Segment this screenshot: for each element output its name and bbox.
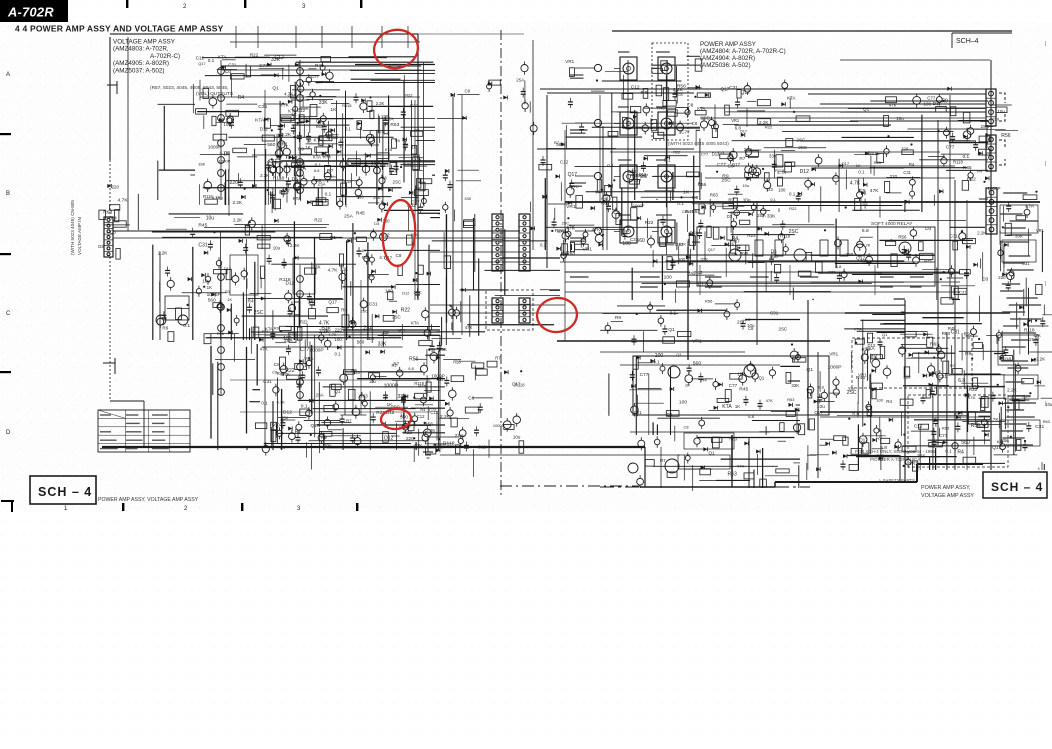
svg-text:△ SAFETY PARTS: △ SAFETY PARTS	[878, 478, 915, 483]
svg-text:C12: C12	[430, 410, 438, 415]
svg-text:C12: C12	[560, 160, 569, 165]
svg-text:2SC: 2SC	[414, 290, 422, 295]
svg-text:R22: R22	[967, 177, 976, 183]
svg-text:(R57, 5023, 4045, 4005, 5043,: (R57, 5023, 4045, 4005, 5043, 5045,	[150, 85, 228, 91]
svg-text:R118: R118	[443, 441, 455, 447]
svg-text:0.1: 0.1	[301, 403, 308, 409]
svg-text:KTA: KTA	[293, 196, 301, 201]
svg-text:Q1: Q1	[759, 375, 765, 380]
svg-text:D3: D3	[925, 226, 931, 232]
svg-text:220: 220	[998, 275, 1006, 280]
svg-text:2.2K: 2.2K	[1036, 357, 1045, 362]
svg-text:10u: 10u	[206, 216, 215, 222]
svg-text:33K: 33K	[319, 100, 329, 106]
svg-text:0.1: 0.1	[335, 351, 342, 356]
svg-text:6.8: 6.8	[314, 168, 320, 173]
svg-text:Q1: Q1	[668, 327, 675, 333]
svg-text:2.2K: 2.2K	[426, 428, 436, 433]
svg-text:D3: D3	[767, 187, 773, 193]
svg-text:R22: R22	[747, 233, 756, 238]
svg-text:VR1: VR1	[304, 356, 314, 362]
svg-text:POWER AMP ASSY: POWER AMP ASSY	[700, 41, 756, 48]
svg-text:VOLTAGE AMP ASSY: VOLTAGE AMP ASSY	[113, 39, 176, 46]
svg-text:R22: R22	[401, 307, 410, 313]
svg-text:D12: D12	[283, 410, 292, 416]
svg-text:(AMZ5036: A-502): (AMZ5036: A-502)	[700, 62, 751, 69]
svg-text:Q17: Q17	[859, 438, 868, 443]
svg-text:KTA: KTA	[737, 463, 745, 468]
svg-text:2.2K: 2.2K	[233, 200, 243, 205]
svg-text:1K: 1K	[856, 163, 861, 168]
svg-text:D3: D3	[374, 221, 380, 226]
svg-text:C31: C31	[268, 158, 277, 163]
svg-text:R4: R4	[957, 449, 964, 455]
svg-text:1K: 1K	[685, 382, 690, 387]
svg-text:Q1: Q1	[709, 451, 716, 456]
svg-text:KTA: KTA	[787, 96, 795, 101]
svg-text:C77: C77	[717, 162, 726, 168]
svg-text:D3: D3	[354, 370, 360, 375]
svg-text:C31: C31	[950, 234, 959, 239]
svg-text:C77: C77	[729, 383, 738, 388]
svg-text:560: 560	[208, 298, 216, 304]
svg-text:0.1: 0.1	[325, 192, 332, 197]
svg-text:R56: R56	[964, 331, 973, 336]
svg-text:D3: D3	[98, 244, 104, 249]
svg-text:560: 560	[693, 361, 702, 367]
svg-text:100: 100	[664, 275, 672, 281]
svg-text:C77: C77	[939, 433, 948, 439]
svg-text:47K: 47K	[557, 229, 566, 235]
svg-text:10u: 10u	[742, 183, 749, 188]
svg-text:1K: 1K	[411, 145, 416, 150]
svg-text:KTA: KTA	[722, 404, 732, 410]
svg-text:33K: 33K	[791, 383, 799, 388]
svg-text:0.1: 0.1	[677, 201, 684, 207]
svg-text:D12: D12	[800, 169, 809, 175]
svg-text:2.2K: 2.2K	[1007, 387, 1018, 393]
svg-text:10u: 10u	[513, 435, 521, 440]
svg-text:Q1: Q1	[272, 86, 279, 92]
svg-text:R9: R9	[414, 128, 420, 133]
svg-text:C8: C8	[860, 188, 866, 193]
svg-text:VR1: VR1	[731, 118, 740, 123]
svg-text:2SC: 2SC	[798, 145, 808, 150]
svg-text:KTA: KTA	[384, 117, 394, 123]
svg-text:47K: 47K	[414, 157, 422, 162]
svg-text:100: 100	[622, 241, 631, 247]
svg-text:100: 100	[778, 187, 786, 192]
svg-text:C31: C31	[198, 242, 207, 248]
svg-text:VR1: VR1	[1036, 228, 1045, 233]
svg-text:A: A	[6, 72, 10, 78]
svg-text:4 4 POWER AMP ASSY AND VOLTAGE: 4 4 POWER AMP ASSY AND VOLTAGE AMP ASSY	[15, 24, 224, 34]
svg-text:C31: C31	[959, 289, 967, 294]
svg-text:C31: C31	[951, 330, 960, 336]
svg-text:C12: C12	[196, 56, 205, 61]
svg-text:4.7K: 4.7K	[850, 181, 861, 187]
svg-text:R56: R56	[409, 356, 418, 362]
svg-text:C8: C8	[396, 253, 402, 258]
svg-text:SCH – 4: SCH – 4	[38, 485, 92, 499]
svg-text:|: |	[1045, 41, 1046, 47]
svg-text:R22: R22	[645, 220, 654, 226]
svg-text:C77: C77	[259, 63, 268, 69]
svg-text:100: 100	[385, 288, 393, 294]
svg-text:C31: C31	[369, 302, 378, 308]
svg-text:D3: D3	[718, 150, 725, 156]
svg-text:C31: C31	[263, 379, 272, 384]
svg-text:R9: R9	[274, 325, 279, 330]
svg-text:|: |	[1045, 161, 1046, 167]
svg-text:B: B	[6, 191, 10, 197]
svg-text:Q17: Q17	[568, 172, 578, 178]
svg-text:4.7K: 4.7K	[328, 268, 339, 274]
svg-text:220: 220	[992, 117, 999, 122]
svg-text:R63: R63	[695, 270, 704, 275]
svg-text:D3: D3	[727, 214, 733, 219]
svg-text:4.7K: 4.7K	[284, 91, 293, 96]
svg-text:R63: R63	[942, 331, 951, 336]
svg-text:1000P: 1000P	[208, 144, 221, 149]
svg-text:10u: 10u	[273, 245, 281, 250]
svg-text:R9: R9	[965, 351, 971, 357]
svg-text:1K: 1K	[227, 297, 232, 302]
svg-text:D12: D12	[224, 266, 231, 271]
svg-text:R4: R4	[701, 378, 707, 383]
svg-text:R4: R4	[238, 95, 245, 101]
svg-text:C77: C77	[946, 144, 955, 150]
svg-text:R7: R7	[392, 363, 398, 368]
svg-text:10u: 10u	[202, 278, 210, 283]
svg-text:R45: R45	[315, 63, 324, 69]
svg-text:D12: D12	[868, 343, 876, 348]
svg-text:A-702R-C): A-702R-C)	[150, 53, 180, 60]
svg-text:0.1: 0.1	[963, 154, 970, 160]
svg-text:47K: 47K	[870, 188, 879, 194]
svg-text:R118: R118	[414, 381, 424, 386]
svg-text:6.8: 6.8	[862, 228, 869, 234]
svg-text:0.1: 0.1	[858, 169, 865, 174]
svg-text:R7: R7	[554, 140, 559, 145]
svg-text:0.1: 0.1	[183, 323, 190, 329]
svg-text:0.1: 0.1	[664, 157, 671, 163]
svg-text:VR1: VR1	[829, 352, 838, 357]
svg-text:C12: C12	[478, 445, 487, 450]
svg-text:6.8: 6.8	[748, 414, 755, 419]
svg-text:47K: 47K	[679, 242, 686, 247]
svg-text:Q17: Q17	[814, 410, 823, 415]
svg-text:Q17: Q17	[512, 381, 521, 386]
svg-text:R56: R56	[1001, 133, 1010, 139]
svg-text:Q17: Q17	[328, 300, 337, 305]
svg-text:R56: R56	[453, 359, 461, 364]
svg-text:|: |	[1045, 281, 1046, 287]
svg-text:VR1: VR1	[565, 59, 574, 64]
svg-text:C8: C8	[684, 424, 690, 429]
svg-text:R63: R63	[942, 426, 950, 431]
svg-text:1K: 1K	[308, 299, 314, 304]
svg-text:R4: R4	[248, 298, 254, 304]
svg-text:4.7K: 4.7K	[328, 332, 336, 337]
svg-text:10u: 10u	[997, 109, 1005, 115]
svg-text:R22: R22	[828, 270, 835, 275]
svg-text:KTA: KTA	[697, 106, 705, 111]
svg-text:VR1: VR1	[909, 461, 918, 466]
svg-text:560: 560	[961, 440, 970, 446]
svg-text:C31: C31	[770, 310, 779, 315]
svg-text:Q17: Q17	[741, 90, 751, 96]
svg-text:10u: 10u	[747, 323, 755, 328]
svg-text:SCH–4: SCH–4	[956, 38, 979, 45]
svg-text:R4: R4	[111, 215, 117, 220]
svg-text:0.1: 0.1	[653, 359, 660, 364]
svg-text:C8: C8	[274, 362, 280, 368]
svg-text:R22: R22	[279, 190, 288, 196]
svg-text:47K: 47K	[592, 227, 601, 233]
svg-text:C77: C77	[300, 347, 309, 353]
svg-text:D12: D12	[260, 127, 269, 132]
svg-text:Q17: Q17	[740, 128, 747, 133]
svg-text:47K: 47K	[566, 226, 576, 232]
svg-text:6.8: 6.8	[836, 264, 842, 269]
svg-text:2.2K: 2.2K	[376, 101, 385, 106]
svg-text:(AMZ4905: A-802R): (AMZ4905: A-802R)	[113, 60, 169, 67]
svg-text:C77: C77	[311, 74, 320, 79]
svg-text:2SC: 2SC	[779, 327, 788, 332]
svg-text:2SA: 2SA	[344, 214, 354, 219]
svg-text:D3: D3	[982, 277, 988, 282]
svg-text:D3: D3	[110, 230, 116, 235]
svg-text:33K: 33K	[464, 196, 471, 201]
svg-text:Q1: Q1	[676, 352, 681, 357]
svg-text:220: 220	[406, 436, 414, 441]
svg-text:R7: R7	[574, 184, 579, 189]
svg-text:6.8: 6.8	[818, 385, 824, 390]
svg-text:R63: R63	[930, 342, 939, 348]
svg-text:2SC: 2SC	[393, 180, 402, 185]
svg-text:C8: C8	[465, 88, 471, 93]
svg-text:Q1: Q1	[806, 367, 813, 373]
svg-text:1K: 1K	[305, 145, 310, 150]
svg-text:4.7K: 4.7K	[319, 321, 330, 327]
svg-text:Q17: Q17	[842, 161, 850, 166]
svg-text:33K: 33K	[312, 264, 321, 269]
svg-text:C8: C8	[728, 164, 734, 170]
svg-text:R63: R63	[728, 471, 737, 477]
svg-text:R63: R63	[787, 397, 795, 402]
svg-text:C: C	[6, 311, 11, 317]
svg-text:Q17: Q17	[311, 423, 320, 428]
svg-text:C31: C31	[258, 104, 267, 110]
svg-text:R7: R7	[728, 197, 734, 202]
svg-text:R22: R22	[314, 218, 322, 223]
svg-text:R9: R9	[722, 174, 729, 180]
svg-text:R4: R4	[909, 162, 915, 167]
svg-text:220: 220	[901, 147, 909, 152]
svg-text:R63: R63	[710, 192, 719, 197]
svg-text:0.1: 0.1	[770, 197, 776, 202]
svg-text:560: 560	[770, 254, 778, 260]
svg-text:R63: R63	[1043, 419, 1050, 424]
svg-text:1000P: 1000P	[828, 365, 842, 371]
svg-text:2SA: 2SA	[516, 77, 524, 82]
svg-text:R45: R45	[356, 211, 365, 217]
svg-text:2.2K: 2.2K	[290, 243, 300, 248]
svg-text:R4: R4	[977, 169, 983, 174]
svg-text:100: 100	[679, 399, 687, 405]
svg-text:100: 100	[924, 101, 932, 106]
svg-text:R56: R56	[898, 235, 907, 240]
svg-text:R7: R7	[739, 156, 745, 161]
svg-text:R56: R56	[705, 298, 713, 303]
svg-text:6.8: 6.8	[408, 366, 414, 371]
svg-text:4.7K: 4.7K	[989, 417, 1000, 423]
svg-text:2.2K: 2.2K	[673, 87, 684, 93]
svg-text:R4: R4	[420, 407, 426, 412]
svg-text:R22: R22	[789, 206, 797, 211]
svg-text:KTA: KTA	[323, 155, 331, 160]
svg-text:2SC: 2SC	[796, 137, 806, 142]
svg-text:1K: 1K	[683, 189, 690, 195]
svg-text:KTA: KTA	[255, 117, 265, 123]
svg-text:2.2K: 2.2K	[440, 414, 449, 419]
svg-text:A-702R: A-702R	[7, 5, 54, 20]
svg-text:33K: 33K	[198, 161, 205, 166]
svg-text:10u: 10u	[1045, 402, 1052, 407]
svg-text:4.7K: 4.7K	[220, 150, 229, 155]
svg-text:0.1: 0.1	[261, 400, 268, 405]
svg-text:Q17: Q17	[198, 61, 206, 66]
svg-text:Q17: Q17	[708, 247, 716, 252]
svg-text:R4: R4	[886, 399, 892, 404]
svg-text:KTA: KTA	[411, 321, 419, 326]
svg-text:VR1: VR1	[692, 339, 702, 345]
svg-text:R45: R45	[924, 258, 932, 263]
svg-text:0.1: 0.1	[670, 310, 677, 315]
svg-text:100: 100	[876, 398, 884, 403]
svg-text:R118: R118	[775, 168, 784, 173]
svg-text:VOLTAGE AMP IN: VOLTAGE AMP IN	[77, 217, 82, 255]
svg-text:VR1: VR1	[566, 204, 576, 210]
svg-text:C77: C77	[316, 80, 323, 85]
svg-text:1K: 1K	[735, 404, 740, 409]
svg-text:2.2K: 2.2K	[260, 173, 269, 178]
svg-text:R63: R63	[390, 122, 399, 128]
svg-text:SCH – 4: SCH – 4	[991, 480, 1043, 494]
svg-text:VOLTAGE AMP ASSY: VOLTAGE AMP ASSY	[921, 493, 974, 499]
svg-text:(VOL) OUTPUTS: (VOL) OUTPUTS	[196, 91, 233, 97]
svg-text:1K: 1K	[871, 355, 878, 361]
svg-text:R118: R118	[203, 194, 213, 199]
svg-text:R63: R63	[359, 394, 368, 399]
svg-text:R22: R22	[250, 53, 259, 58]
svg-text:0.1: 0.1	[208, 58, 215, 64]
svg-text:0.1: 0.1	[945, 448, 952, 453]
svg-text:10u: 10u	[737, 371, 745, 376]
svg-text:1000P: 1000P	[988, 186, 1001, 191]
svg-text:10u: 10u	[743, 198, 751, 204]
svg-text:(AMZ5037: A-502): (AMZ5037: A-502)	[113, 67, 164, 74]
svg-text:D3: D3	[933, 101, 939, 107]
svg-text:R4: R4	[280, 445, 286, 450]
svg-text:6.8: 6.8	[732, 211, 739, 216]
svg-text:R9: R9	[615, 315, 621, 320]
svg-text:220: 220	[112, 184, 120, 189]
svg-text:2SC: 2SC	[981, 124, 991, 129]
svg-text:100: 100	[655, 353, 664, 359]
svg-text:33K: 33K	[1015, 233, 1023, 238]
svg-text:2.2K: 2.2K	[158, 251, 168, 256]
svg-text:2.2K: 2.2K	[862, 243, 871, 248]
svg-text:C12: C12	[631, 84, 640, 90]
svg-text:D12: D12	[402, 291, 409, 296]
svg-text:R22: R22	[300, 319, 308, 324]
svg-text:2SA: 2SA	[1029, 337, 1039, 343]
svg-text:R22: R22	[405, 93, 412, 98]
svg-text:Q1: Q1	[876, 435, 883, 440]
svg-text:D12: D12	[639, 172, 647, 177]
svg-text:R7: R7	[346, 419, 352, 424]
svg-text:560: 560	[267, 142, 275, 148]
svg-text:(WITH 5023 4045) CN-805: (WITH 5023 4045) CN-805	[70, 200, 75, 255]
svg-text:33K: 33K	[769, 153, 777, 158]
svg-text:C8: C8	[272, 369, 278, 374]
svg-text:C31: C31	[634, 410, 642, 415]
svg-text:R7: R7	[327, 168, 333, 174]
svg-text:C31: C31	[903, 170, 911, 175]
svg-text:KTA: KTA	[313, 155, 321, 160]
svg-text:D: D	[6, 430, 11, 436]
svg-text:R4: R4	[732, 236, 739, 242]
svg-text:C31: C31	[630, 237, 639, 242]
svg-text:C77: C77	[640, 372, 649, 378]
svg-text:560: 560	[357, 340, 365, 345]
svg-text:C31: C31	[228, 63, 236, 68]
svg-text:D12: D12	[286, 280, 295, 286]
svg-text:(WITH 5023 4045 4005 5043): (WITH 5023 4045 4005 5043)	[668, 141, 729, 146]
svg-text:(AMZ4904: A-802R): (AMZ4904: A-802R)	[700, 55, 755, 62]
svg-text:33K: 33K	[767, 214, 776, 220]
svg-text:4.7K: 4.7K	[118, 198, 129, 204]
svg-text:D3: D3	[369, 336, 375, 341]
svg-text:6.8: 6.8	[692, 195, 699, 201]
svg-text:0.1: 0.1	[789, 192, 796, 197]
svg-text:10u: 10u	[215, 195, 223, 200]
svg-text:33K: 33K	[848, 387, 856, 392]
svg-text:C8: C8	[692, 121, 698, 126]
svg-text:1000P: 1000P	[493, 423, 505, 428]
svg-text:SOFT 4000 RELAY: SOFT 4000 RELAY	[871, 221, 913, 227]
svg-text:KTA: KTA	[265, 327, 273, 332]
svg-text:(AMZ4803: A-702R,: (AMZ4803: A-702R,	[113, 46, 169, 53]
svg-text:220: 220	[288, 331, 295, 336]
svg-text:R118: R118	[342, 103, 352, 108]
svg-text:R45: R45	[741, 251, 749, 256]
svg-text:R7: R7	[950, 363, 955, 368]
svg-text:POWER AMP ASSY,: POWER AMP ASSY,	[921, 485, 971, 491]
svg-text:6.8: 6.8	[852, 412, 859, 418]
svg-text:C77: C77	[927, 95, 936, 100]
svg-text:R7: R7	[495, 356, 501, 361]
svg-text:D3: D3	[225, 289, 231, 294]
svg-text:D3: D3	[771, 249, 777, 254]
svg-text:Q1: Q1	[667, 412, 673, 417]
svg-text:2.2K: 2.2K	[233, 218, 242, 223]
svg-text:R45: R45	[739, 387, 748, 393]
svg-text:33K: 33K	[438, 347, 447, 353]
svg-text:2.2K: 2.2K	[977, 231, 986, 236]
